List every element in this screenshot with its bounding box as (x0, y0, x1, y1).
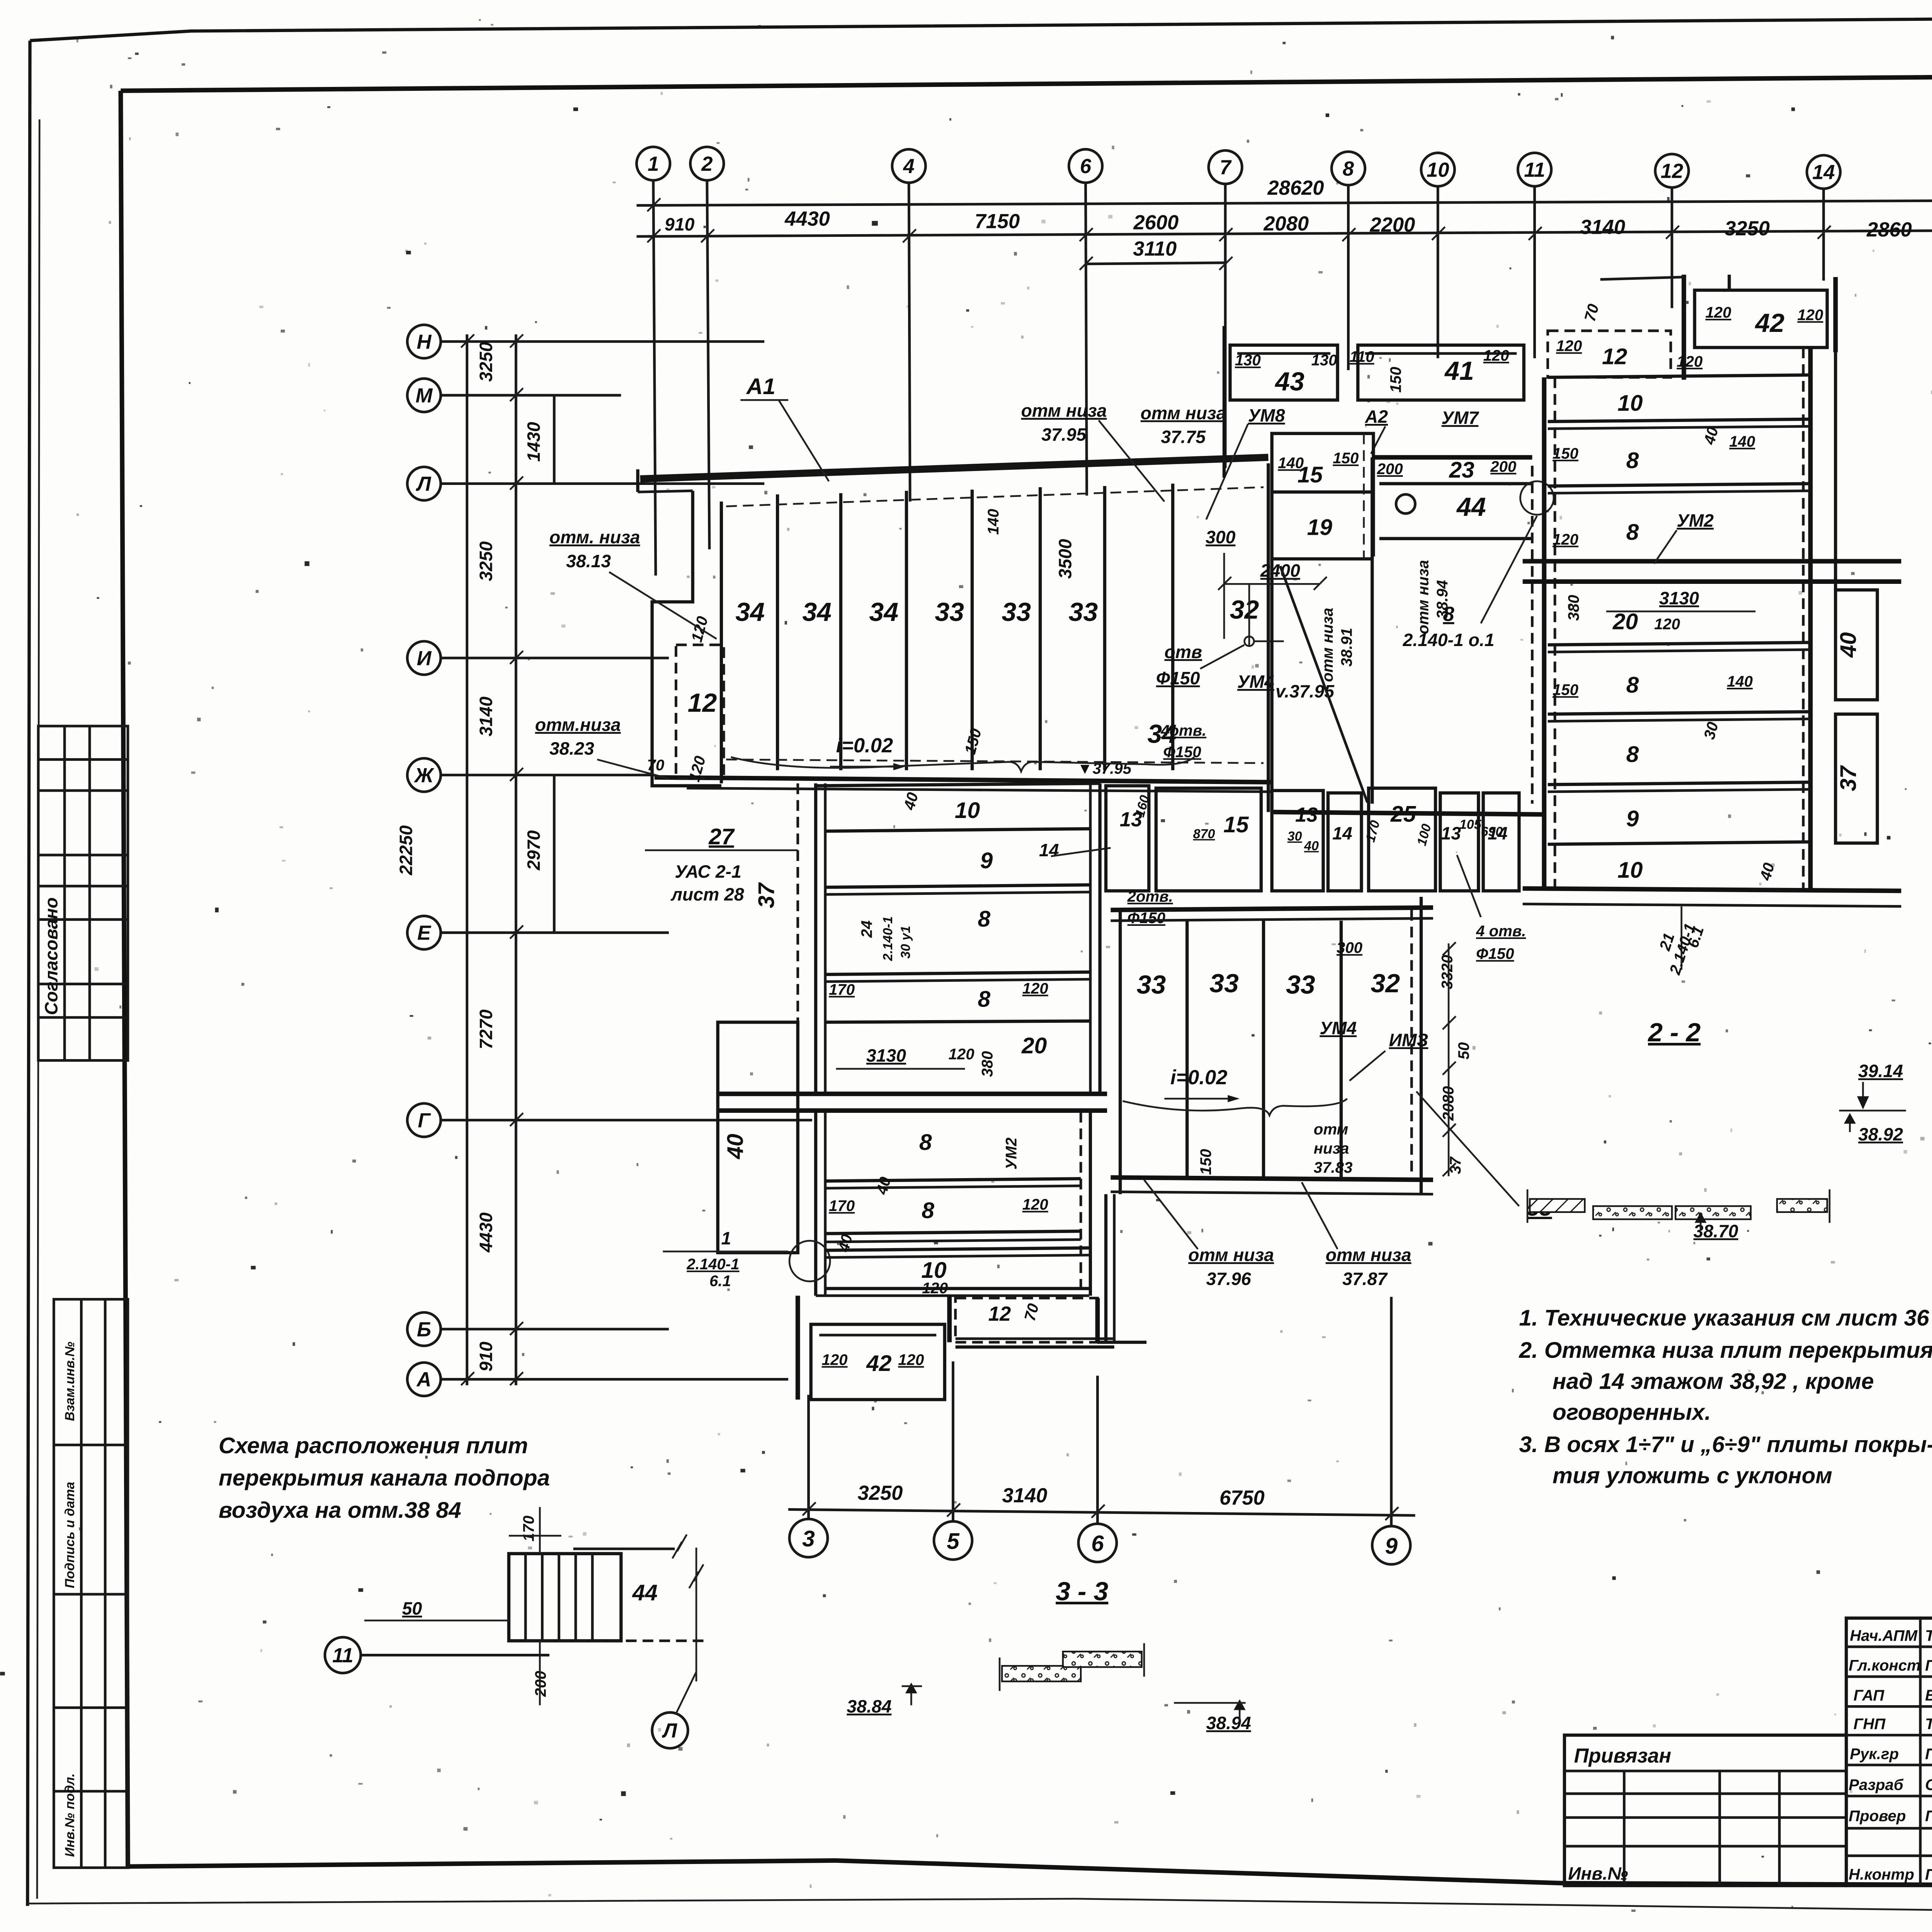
axis circle 3 (789, 1519, 828, 1557)
svg-text:910: 910 (665, 214, 695, 234)
slab divider 1 (777, 494, 778, 770)
svg-text:Ж: Ж (413, 764, 435, 787)
svg-text:7150: 7150 (975, 210, 1020, 233)
axis 11 extension line (1534, 186, 1535, 358)
axis G leader (441, 1120, 812, 1121)
svg-text:30 у1: 30 у1 (898, 926, 913, 959)
svg-text:2. Отметка низа плит перекрыт: 2. Отметка низа плит перекрытия (1519, 1338, 1932, 1363)
balcony slab 37 (1835, 714, 1877, 843)
slab divider 8/8 (1548, 484, 1811, 486)
brace under slabs (731, 757, 1194, 771)
svg-text:2400: 2400 (1260, 561, 1300, 581)
svg-text:3140: 3140 (476, 697, 496, 736)
svg-text:УМ7: УМ7 (1441, 408, 1479, 428)
axis circle L (407, 467, 441, 500)
svg-text:37.87: 37.87 (1342, 1269, 1388, 1289)
svg-text:150: 150 (1387, 367, 1404, 393)
svg-text:910: 910 (476, 1342, 496, 1372)
svg-text:38.91: 38.91 (1338, 628, 1355, 667)
svg-text:перекрытия канала подпора: перекрытия канала подпора (219, 1466, 550, 1491)
slab divider 3 (906, 491, 907, 770)
svg-text:1: 1 (648, 153, 659, 175)
svg-text:37: 37 (754, 882, 779, 908)
axis Zh leader (441, 775, 655, 776)
svg-text:i=0.02: i=0.02 (836, 734, 893, 757)
svg-text:34: 34 (869, 597, 898, 627)
svg-text:8: 8 (1626, 742, 1639, 767)
svg-text:Инв.№: Инв.№ (1568, 1863, 1628, 1883)
svg-text:1: 1 (721, 1228, 731, 1248)
rooms 15/19 block (1272, 434, 1374, 807)
svg-text:Схема расположения плит: Схема расположения плит (219, 1433, 528, 1458)
middle slab b (1675, 1206, 1751, 1219)
small room r7 (1483, 793, 1519, 891)
balcony slab 40 (1835, 590, 1877, 700)
svg-text:150: 150 (1197, 1149, 1214, 1175)
axis circle A (407, 1362, 441, 1396)
svg-text:низа: низа (1314, 1139, 1349, 1157)
svg-text:130: 130 (1311, 352, 1337, 369)
svg-text:8: 8 (1343, 157, 1354, 180)
right slab step (1063, 1651, 1142, 1667)
svg-text:4430: 4430 (784, 207, 830, 230)
axis junction circle (789, 1241, 830, 1281)
dashed inner bottom (726, 760, 1264, 763)
slab top line (816, 783, 1100, 786)
svg-text:Взам.инв.№: Взам.инв.№ (63, 1342, 77, 1421)
middle slab a (1593, 1206, 1672, 1219)
axis circle N (407, 325, 441, 359)
divider 33/32 (1341, 921, 1342, 1177)
stamp table lower group (54, 1299, 128, 1867)
axis circle Zh (407, 758, 441, 792)
outer left border line (27, 41, 30, 1906)
svg-text:120: 120 (898, 1351, 924, 1368)
svg-text:Толстинев: Толстинев (1925, 1627, 1932, 1644)
svg-text:38.92: 38.92 (1858, 1124, 1903, 1144)
svg-text:120: 120 (1797, 306, 1823, 323)
svg-text:Разраб: Разраб (1849, 1776, 1903, 1794)
right hatched slab (1777, 1199, 1827, 1212)
axis circle 5 (934, 1521, 972, 1560)
small room r5 (1369, 788, 1435, 891)
svg-text:33: 33 (1069, 597, 1098, 627)
svg-text:870: 870 (1193, 827, 1215, 842)
svg-text:2: 2 (701, 153, 713, 175)
svg-text:22250: 22250 (396, 825, 416, 876)
axis 6 extension line (1086, 183, 1087, 496)
right axis line bl (696, 1548, 697, 1681)
svg-text:20: 20 (1021, 1033, 1047, 1058)
svg-text:14: 14 (1812, 161, 1835, 184)
bottom wall double (655, 777, 1272, 782)
svg-text:Г: Г (418, 1109, 431, 1132)
privyazan table (1565, 1735, 1846, 1886)
svg-text:3250: 3250 (476, 342, 496, 382)
axis E leader (441, 932, 669, 933)
dashed boundary left (798, 783, 798, 1113)
divider 8/8 (825, 972, 1090, 975)
left inner wall (721, 502, 722, 783)
svg-text:Л: Л (415, 473, 431, 495)
svg-text:37: 37 (1836, 765, 1861, 791)
svg-text:20: 20 (1612, 609, 1638, 634)
svg-text:12: 12 (1602, 344, 1628, 369)
svg-text:44: 44 (1456, 492, 1486, 522)
svg-text:А2: А2 (1365, 406, 1388, 427)
svg-text:8: 8 (1443, 603, 1454, 626)
lower stack right wall (1090, 1112, 1091, 1296)
svg-text:Пристинский: Пристинский (1925, 1745, 1932, 1762)
svg-text:Обсленцева: Обсленцева (1925, 1776, 1932, 1794)
svg-text:34: 34 (802, 597, 832, 627)
small room r4 (1328, 793, 1362, 891)
svg-text:12: 12 (688, 688, 717, 718)
svg-text:А1: А1 (746, 374, 776, 399)
partial second chain (554, 395, 554, 484)
svg-text:3250: 3250 (1725, 217, 1770, 240)
right step outline (1105, 1194, 1107, 1342)
axis circle 1 (636, 147, 670, 180)
svg-text:38.13: 38.13 (566, 551, 611, 571)
svg-text:ГНП: ГНП (1854, 1715, 1886, 1733)
svg-text:3110: 3110 (1133, 237, 1177, 260)
svg-text:8: 8 (922, 1198, 934, 1223)
svg-text:170: 170 (520, 1515, 537, 1541)
opening circle (1396, 494, 1415, 513)
svg-text:отм низа: отм низа (1319, 608, 1336, 682)
svg-text:3250: 3250 (476, 541, 496, 581)
svg-text:120: 120 (1705, 304, 1731, 321)
svg-text:2.140-1: 2.140-1 (686, 1255, 739, 1273)
svg-text:М: М (415, 384, 433, 407)
svg-text:3 - 3: 3 - 3 (1056, 1577, 1108, 1606)
stack left wall (1543, 378, 1545, 889)
slab divider 8/8 low (1548, 712, 1811, 714)
svg-text:33: 33 (1137, 970, 1166, 999)
right outer wall stub (1835, 277, 1836, 352)
svg-text:120: 120 (1553, 531, 1578, 548)
svg-text:Л: Л (662, 1719, 677, 1742)
svg-text:120: 120 (1654, 616, 1680, 633)
svg-text:37.96: 37.96 (1206, 1269, 1252, 1289)
axis circle 9 (1372, 1526, 1410, 1565)
small room r2 (1156, 788, 1261, 891)
svg-text:9: 9 (1626, 806, 1639, 832)
axis circle 7 (1209, 150, 1242, 184)
small room r1 (1106, 786, 1149, 891)
svg-text:33: 33 (1209, 969, 1239, 998)
svg-text:140: 140 (1727, 673, 1753, 690)
room 10 bottom box (825, 1248, 1089, 1250)
outer bottom thin border line (27, 1899, 1932, 1920)
svg-text:4отв.: 4отв. (1160, 722, 1206, 739)
divider 9/8 (825, 885, 1090, 887)
svg-text:2 - 2: 2 - 2 (1647, 1018, 1701, 1047)
svg-text:14: 14 (1332, 823, 1352, 844)
33 block top wall (1111, 908, 1433, 910)
svg-text:33: 33 (1002, 597, 1031, 627)
svg-text:оговоренных.: оговоренных. (1553, 1400, 1711, 1425)
axis circle 2 (690, 147, 724, 180)
svg-text:9: 9 (1385, 1534, 1398, 1559)
svg-text:38.23: 38.23 (549, 738, 594, 759)
svg-text:8: 8 (1626, 520, 1639, 545)
divider 10/9 (825, 829, 1090, 831)
svg-text:150: 150 (1553, 445, 1578, 462)
svg-text:50: 50 (1455, 1042, 1473, 1060)
axis M leader (441, 395, 621, 396)
svg-text:6: 6 (1080, 155, 1092, 178)
svg-text:отм низа: отм низа (1141, 403, 1226, 423)
svg-text:i=0.02: i=0.02 (1170, 1066, 1227, 1089)
axis circle 10 (1421, 153, 1455, 187)
svg-text:1. Технические указания см ли: 1. Технические указания см лист 36 (1519, 1305, 1929, 1330)
room 12 top dashed (1548, 331, 1671, 378)
svg-text:8: 8 (978, 986, 990, 1012)
wall stubs bottom (797, 1296, 799, 1400)
slab divider 10/8 (1548, 419, 1811, 422)
svg-text:2860: 2860 (1866, 218, 1912, 241)
svg-text:УМ8: УМ8 (1248, 405, 1285, 425)
svg-text:25: 25 (1390, 801, 1417, 827)
small room r6 (1440, 793, 1478, 891)
slab top line (1548, 375, 1811, 377)
stamp table upper group (38, 726, 128, 1060)
svg-text:42: 42 (1755, 308, 1785, 338)
svg-text:24: 24 (858, 920, 875, 938)
svg-text:40: 40 (1304, 838, 1319, 853)
divider 33/33 b (1263, 921, 1264, 1177)
slab divider 8/9 (1548, 782, 1811, 784)
svg-text:150: 150 (1553, 681, 1578, 699)
svg-text:70: 70 (647, 756, 665, 774)
svg-text:3130: 3130 (866, 1045, 906, 1065)
svg-text:Ф150: Ф150 (1476, 945, 1514, 963)
svg-text:отм низа: отм низа (1326, 1245, 1412, 1265)
axis circle 8 (1332, 151, 1365, 185)
top wall stub (1729, 275, 1730, 290)
svg-text:2отв.: 2отв. (1127, 888, 1173, 905)
svg-text:690: 690 (1481, 824, 1503, 839)
svg-text:120: 120 (1677, 353, 1702, 370)
svg-text:33: 33 (1286, 970, 1315, 999)
svg-text:10: 10 (1617, 391, 1643, 416)
room 12 dashed outline (676, 645, 724, 779)
svg-text:Пристинский: Пристинский (1925, 1807, 1932, 1825)
top line with break (573, 1548, 675, 1549)
left slab step (1002, 1666, 1081, 1681)
svg-text:10: 10 (1617, 858, 1643, 883)
svg-text:Пристинский: Пристинский (1925, 1866, 1932, 1883)
svg-text:3. В осях 1÷7" и „6÷9" пли: 3. В осях 1÷7" и „6÷9" плиты покры- (1519, 1432, 1932, 1457)
svg-text:Подпись и дата: Подпись и дата (63, 1482, 77, 1588)
axis 2 extension line (707, 180, 709, 549)
svg-text:4: 4 (903, 155, 914, 178)
svg-text:140: 140 (1729, 433, 1755, 450)
svg-text:Привязан: Привязан (1574, 1745, 1672, 1767)
svg-text:44: 44 (632, 1580, 657, 1605)
svg-text:отм: отм (1314, 1121, 1348, 1138)
svg-text:отм низа: отм низа (1188, 1245, 1274, 1265)
slab divider 20/8 (1548, 643, 1811, 645)
brace lower (1122, 1099, 1347, 1115)
svg-text:УМ4: УМ4 (1237, 672, 1274, 692)
slab divider 9/10 (1548, 842, 1811, 844)
outer left inner doubled line (37, 119, 39, 1899)
svg-text:4 отв.: 4 отв. (1476, 922, 1526, 940)
bottom wall (1523, 888, 1901, 891)
svg-text:Гл.конст: Гл.конст (1849, 1657, 1920, 1674)
svg-text:23: 23 (1449, 457, 1474, 483)
svg-text:6750: 6750 (1219, 1486, 1265, 1509)
room 41 outline (1358, 345, 1524, 400)
svg-text:6: 6 (1091, 1531, 1104, 1556)
slab box (509, 1554, 621, 1641)
svg-text:11: 11 (332, 1644, 354, 1667)
overall dimension line 28620 (636, 201, 1932, 205)
right wall 33 block (1421, 897, 1422, 1194)
svg-text:Инв.№ подл.: Инв.№ подл. (63, 1773, 77, 1857)
svg-text:Ф150: Ф150 (1156, 668, 1200, 688)
svg-text:120: 120 (1483, 347, 1509, 364)
svg-text:300: 300 (1206, 527, 1236, 547)
bottom dim line (788, 1509, 1415, 1515)
svg-text:отв: отв (1164, 642, 1202, 662)
svg-text:УМ4: УМ4 (1320, 1018, 1357, 1038)
svg-text:Согласовано: Согласовано (41, 897, 61, 1015)
svg-text:150: 150 (1333, 449, 1359, 467)
left protrusion room 40 (718, 1022, 798, 1252)
svg-text:200: 200 (1490, 458, 1516, 475)
svg-text:10: 10 (1427, 158, 1449, 181)
svg-text:170: 170 (829, 981, 855, 998)
svg-text:120: 120 (1556, 337, 1582, 355)
svg-text:40: 40 (1836, 632, 1861, 658)
svg-text:15: 15 (1223, 812, 1249, 837)
axis circle 6 (1069, 149, 1102, 183)
svg-text:Б: Б (417, 1318, 431, 1341)
svg-text:И: И (417, 647, 432, 670)
room 12 bottom dashed (956, 1298, 1098, 1342)
svg-text:14: 14 (1039, 840, 1059, 860)
svg-text:110: 110 (1350, 348, 1374, 365)
svg-text:380: 380 (978, 1051, 996, 1077)
main frame top thick line (121, 71, 1932, 90)
svg-text:ИМЗ: ИМЗ (1389, 1030, 1428, 1050)
bottom wall 33 block (1111, 1177, 1433, 1180)
svg-text:3320: 3320 (1438, 955, 1456, 989)
label 2.140-1 6.1 rotated (1681, 906, 1682, 970)
svg-text:38.84: 38.84 (847, 1696, 891, 1716)
left outer wall with notch (652, 491, 721, 786)
svg-text:Нач.АПМ: Нач.АПМ (1850, 1627, 1918, 1644)
svg-text:Виедередз: Виедередз (1925, 1687, 1932, 1704)
axis 7 extension line (1225, 184, 1226, 468)
outer top thin border line (30, 15, 1932, 41)
svg-text:УМ2: УМ2 (1677, 510, 1714, 531)
axis L leader (441, 483, 765, 484)
svg-text:13: 13 (1441, 823, 1461, 844)
svg-text:Н: Н (417, 330, 432, 353)
svg-text:7270: 7270 (476, 1009, 496, 1049)
svg-text:3500: 3500 (1055, 539, 1075, 579)
svg-text:380: 380 (1565, 595, 1582, 621)
svg-text:30: 30 (1287, 829, 1302, 844)
lower stack left wall (815, 1112, 816, 1296)
svg-text:19: 19 (1307, 515, 1333, 540)
svg-text:3250: 3250 (858, 1482, 903, 1505)
bottom wall of center (1272, 812, 1544, 815)
divider 8/10 lower (825, 1231, 1081, 1233)
svg-text:Н.контр: Н.контр (1849, 1866, 1914, 1883)
svg-text:120: 120 (1022, 980, 1048, 997)
axis circle E (407, 916, 441, 949)
slab divider 4 (972, 490, 973, 770)
G axis wall (718, 1093, 1107, 1095)
axis B leader (441, 1329, 669, 1330)
svg-text:воздуха на отм.38 84: воздуха на отм.38 84 (219, 1498, 461, 1523)
svg-text:42: 42 (866, 1351, 892, 1376)
Zh axis wall (1523, 561, 1901, 562)
stack right wall double (1810, 347, 1811, 888)
svg-text:6.1: 6.1 (709, 1272, 731, 1289)
right wall of block (1268, 463, 1269, 812)
axis 6 extension (1097, 1376, 1098, 1524)
slab divider 2 (840, 493, 842, 770)
svg-text:3130: 3130 (1659, 588, 1699, 608)
svg-text:9: 9 (980, 848, 993, 873)
svg-text:170: 170 (829, 1197, 855, 1214)
svg-text:2080: 2080 (1263, 212, 1309, 235)
room 42 outline (1695, 290, 1827, 347)
room 23/44 block (1372, 457, 1532, 458)
svg-text:5: 5 (947, 1529, 960, 1554)
slab divider 6 (1104, 486, 1105, 770)
dashed inner top (726, 487, 1264, 506)
svg-text:Е: Е (417, 922, 432, 944)
svg-text:34: 34 (735, 597, 765, 627)
axis 1 extension line (653, 180, 656, 576)
svg-text:УАС 2-1: УАС 2-1 (675, 862, 741, 882)
axis 14 extension line (1823, 189, 1824, 281)
svg-text:120: 120 (1022, 1196, 1048, 1213)
axis circle 14 (1807, 155, 1840, 189)
svg-text:32: 32 (1371, 969, 1400, 998)
svg-text:28620: 28620 (1267, 177, 1324, 199)
svg-text:8: 8 (919, 1130, 932, 1155)
axis circle 12 (1655, 154, 1689, 188)
svg-text:10: 10 (955, 798, 980, 823)
svg-text:120: 120 (922, 1279, 948, 1297)
svg-text:Провер: Провер (1849, 1807, 1906, 1825)
svg-text:120: 120 (821, 1351, 847, 1368)
axis circle G (407, 1104, 441, 1137)
svg-text:Польшин: Польшин (1925, 1657, 1932, 1674)
dim 3110 line (1086, 263, 1226, 264)
svg-text:ГАП: ГАП (1854, 1687, 1885, 1704)
axis 8 extension line (1348, 185, 1349, 370)
axis circle 11 bl (325, 1637, 361, 1673)
room 43 outline (1230, 345, 1337, 400)
svg-text:Ф150: Ф150 (1163, 743, 1201, 760)
axis circle I (407, 641, 441, 675)
svg-text:3140: 3140 (1580, 216, 1625, 239)
shaft diagonal (1280, 566, 1367, 803)
svg-text:отм. низа: отм. низа (549, 527, 640, 547)
svg-text:4430: 4430 (476, 1213, 496, 1253)
svg-text:7: 7 (1219, 156, 1232, 179)
